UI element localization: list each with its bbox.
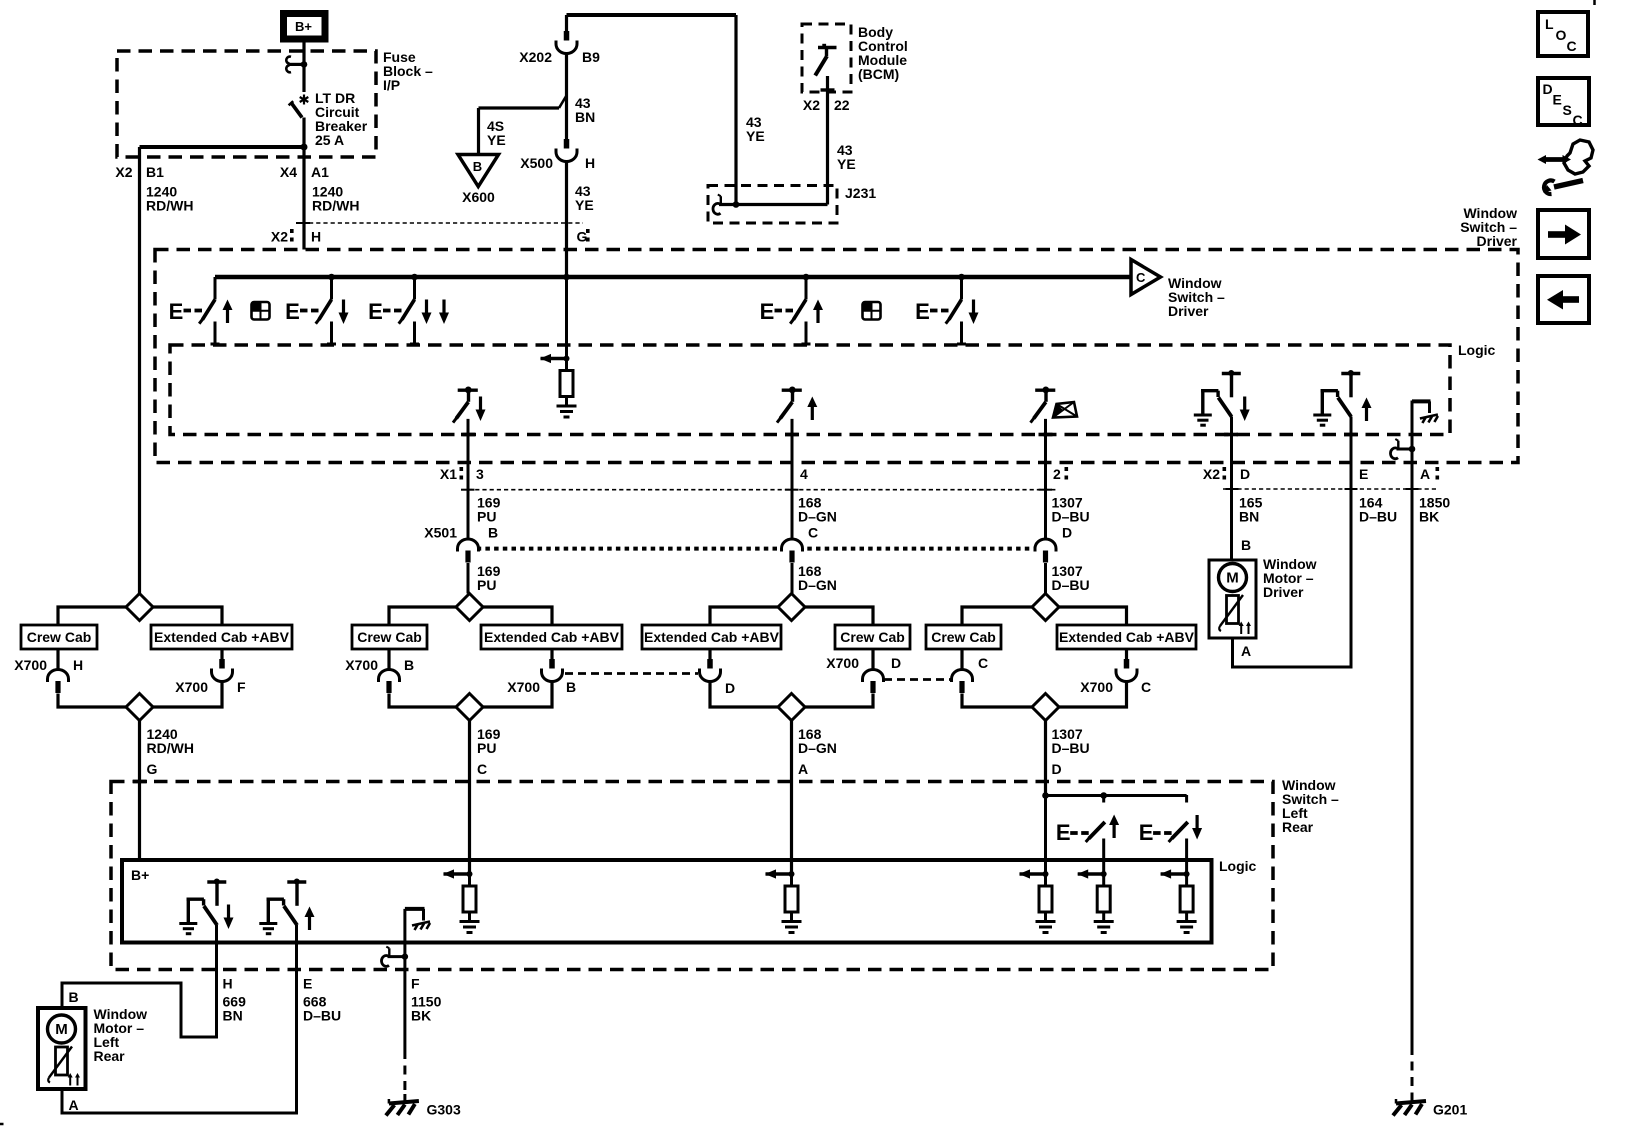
- svg-text:C: C: [808, 525, 818, 541]
- svg-text:D: D: [1543, 81, 1553, 97]
- svg-text:X700: X700: [1080, 679, 1113, 695]
- svg-text:YE: YE: [746, 128, 765, 144]
- svg-text:F: F: [237, 679, 246, 695]
- svg-text:Logic: Logic: [1219, 858, 1257, 874]
- svg-text:Driver: Driver: [1477, 233, 1518, 249]
- svg-text:B: B: [1241, 537, 1251, 553]
- svg-text:D–GN: D–GN: [798, 577, 837, 593]
- svg-text:22: 22: [834, 97, 850, 113]
- svg-text:A: A: [798, 761, 808, 777]
- svg-text:O: O: [1556, 27, 1567, 43]
- svg-text:X700: X700: [507, 679, 540, 695]
- svg-text:D–GN: D–GN: [798, 509, 837, 525]
- svg-text:BN: BN: [223, 1008, 243, 1024]
- svg-text:RD/WH: RD/WH: [312, 198, 359, 214]
- svg-text:BK: BK: [1419, 509, 1439, 525]
- svg-text:Logic: Logic: [1458, 342, 1496, 358]
- svg-text:X2: X2: [1203, 466, 1220, 482]
- svg-text:X700: X700: [345, 657, 378, 673]
- svg-text:PU: PU: [477, 577, 496, 593]
- svg-text:B+: B+: [131, 867, 149, 883]
- svg-text:X4: X4: [280, 164, 297, 180]
- svg-text:Crew Cab: Crew Cab: [27, 629, 92, 645]
- svg-text:YE: YE: [487, 132, 506, 148]
- svg-text:A: A: [1241, 643, 1251, 659]
- svg-text:D–BU: D–BU: [1052, 509, 1090, 525]
- svg-text:PU: PU: [477, 740, 496, 756]
- svg-text:X202: X202: [519, 49, 552, 65]
- svg-text:D–BU: D–BU: [1359, 509, 1397, 525]
- svg-text:Driver: Driver: [1168, 303, 1209, 319]
- svg-text:D: D: [1052, 761, 1062, 777]
- svg-text:B1: B1: [146, 164, 164, 180]
- svg-text:2: 2: [1053, 466, 1061, 482]
- svg-text:S: S: [1563, 102, 1572, 118]
- svg-text:D: D: [725, 680, 735, 696]
- svg-text:X700: X700: [14, 657, 47, 673]
- svg-text:H: H: [585, 155, 595, 171]
- svg-text:Extended Cab +ABV: Extended Cab +ABV: [154, 629, 290, 645]
- svg-text:Crew Cab: Crew Cab: [931, 629, 996, 645]
- svg-text:25 A: 25 A: [315, 132, 344, 148]
- svg-text:G201: G201: [1433, 1102, 1467, 1118]
- svg-text:L: L: [1545, 16, 1554, 32]
- svg-text:B+: B+: [295, 19, 312, 34]
- svg-text:Rear: Rear: [1282, 819, 1314, 835]
- svg-text:Extended Cab +ABV: Extended Cab +ABV: [644, 629, 780, 645]
- svg-text:B9: B9: [582, 49, 600, 65]
- svg-text:B: B: [69, 989, 79, 1005]
- svg-text:B: B: [404, 657, 414, 673]
- svg-text:PU: PU: [477, 509, 496, 525]
- svg-text:A1: A1: [311, 164, 329, 180]
- svg-text:X2: X2: [803, 97, 820, 113]
- svg-text:RD/WH: RD/WH: [146, 198, 193, 214]
- svg-text:Extended Cab +ABV: Extended Cab +ABV: [1059, 629, 1195, 645]
- svg-text:X700: X700: [175, 679, 208, 695]
- svg-text:X1: X1: [440, 466, 457, 482]
- svg-text:C: C: [1567, 38, 1577, 54]
- svg-text:A: A: [69, 1097, 79, 1113]
- svg-text:X501: X501: [424, 525, 457, 541]
- svg-text:D–BU: D–BU: [303, 1008, 341, 1024]
- svg-text:BK: BK: [411, 1008, 431, 1024]
- svg-text:C: C: [477, 761, 487, 777]
- svg-text:H: H: [311, 229, 321, 245]
- svg-text:Driver: Driver: [1263, 584, 1304, 600]
- svg-text:G: G: [577, 229, 588, 245]
- svg-text:D: D: [1240, 466, 1250, 482]
- svg-text:H: H: [73, 657, 83, 673]
- svg-text:Crew Cab: Crew Cab: [357, 629, 422, 645]
- svg-text:G: G: [147, 761, 158, 777]
- svg-text:(BCM): (BCM): [858, 66, 899, 82]
- svg-text:C: C: [1573, 112, 1583, 128]
- svg-text:C: C: [978, 655, 988, 671]
- svg-text:X2: X2: [115, 164, 132, 180]
- svg-text:C: C: [1136, 270, 1146, 285]
- svg-text:Crew Cab: Crew Cab: [840, 629, 905, 645]
- svg-text:D–BU: D–BU: [1052, 577, 1090, 593]
- svg-text:D: D: [891, 655, 901, 671]
- svg-text:RD/WH: RD/WH: [147, 740, 194, 756]
- svg-text:X500: X500: [520, 155, 553, 171]
- svg-text:F: F: [411, 976, 420, 992]
- svg-text:G303: G303: [427, 1102, 461, 1118]
- svg-text:B: B: [473, 159, 482, 174]
- svg-text:Extended Cab +ABV: Extended Cab +ABV: [484, 629, 620, 645]
- svg-text:BN: BN: [1239, 509, 1259, 525]
- svg-text:BN: BN: [575, 109, 595, 125]
- svg-text:D–GN: D–GN: [798, 740, 837, 756]
- svg-text:4: 4: [800, 466, 808, 482]
- svg-text:X600: X600: [462, 189, 495, 205]
- svg-text:YE: YE: [575, 197, 594, 213]
- svg-text:E: E: [1553, 92, 1562, 108]
- svg-text:X2: X2: [271, 229, 288, 245]
- svg-text:X700: X700: [826, 655, 859, 671]
- svg-text:H: H: [223, 976, 233, 992]
- svg-text:C: C: [1141, 679, 1151, 695]
- svg-text:I/P: I/P: [383, 77, 400, 93]
- svg-text:B: B: [488, 525, 498, 541]
- svg-text:J231: J231: [845, 185, 876, 201]
- svg-text:D–BU: D–BU: [1052, 740, 1090, 756]
- svg-text:3: 3: [476, 466, 484, 482]
- svg-text:B: B: [566, 679, 576, 695]
- svg-text:Rear: Rear: [94, 1048, 126, 1064]
- svg-text:E: E: [1359, 466, 1368, 482]
- svg-text:D: D: [1062, 525, 1072, 541]
- svg-text:E: E: [303, 976, 312, 992]
- svg-text:YE: YE: [837, 156, 856, 172]
- svg-text:A: A: [1420, 466, 1430, 482]
